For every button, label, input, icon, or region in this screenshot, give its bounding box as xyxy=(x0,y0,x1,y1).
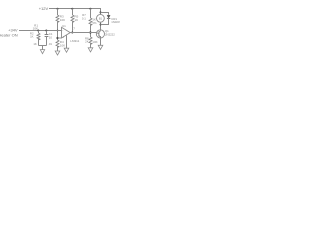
svg-text:10K: 10K xyxy=(33,27,38,31)
wire vertical branch x90 upper xyxy=(90,9,92,19)
node junction dot output xyxy=(71,32,73,34)
svg-text:U1: U1 xyxy=(62,24,66,28)
ground arrow op-amp xyxy=(64,48,69,52)
ground arrow emitter xyxy=(98,45,103,49)
wire vertical branch x72 upper xyxy=(72,9,74,16)
svg-text:1K: 1K xyxy=(33,42,37,46)
ground arrow input filter xyxy=(40,50,44,54)
capacitor C1 wire upper xyxy=(46,31,48,35)
node junction dot signal/divider xyxy=(57,30,59,32)
wire x38 down xyxy=(38,31,40,34)
resistor R5 pullup xyxy=(71,15,74,22)
svg-text:0.1: 0.1 xyxy=(82,17,86,21)
wire input signal horizontal xyxy=(19,30,62,32)
svg-text:+12V: +12V xyxy=(39,6,49,11)
svg-text:1N4007: 1N4007 xyxy=(111,20,120,24)
wire x90 to ground xyxy=(90,43,92,47)
svg-text:1K: 1K xyxy=(30,35,34,39)
wire vertical branch x58 middle xyxy=(57,21,59,40)
node junction dot rail x58 xyxy=(57,8,59,10)
node junction dot rail x90 xyxy=(89,8,91,10)
wire x58 to ground xyxy=(57,46,59,51)
wire x72 down to output node xyxy=(72,21,74,32)
svg-text:Heater ON: Heater ON xyxy=(0,32,18,37)
transistor Q1 collector line xyxy=(99,31,101,33)
svg-text:10K: 10K xyxy=(60,43,65,47)
svg-text:1K: 1K xyxy=(75,18,79,22)
ground arrow base divider xyxy=(88,48,93,52)
resistor R8 lower base xyxy=(89,37,92,44)
wire motor bottom xyxy=(100,22,102,30)
wire x90 to output line xyxy=(90,24,92,37)
capacitor C1 plates xyxy=(45,34,49,36)
wire top +12V rail xyxy=(49,8,101,10)
svg-text:7: 7 xyxy=(73,27,75,31)
svg-text:LM311: LM311 xyxy=(70,39,79,43)
wire vertical branch x58 upper xyxy=(57,9,59,16)
wire rail corner down to motor xyxy=(100,9,102,15)
wire x38 to bottom join xyxy=(38,39,40,46)
svg-text:+: + xyxy=(62,35,64,39)
ground arrow divider xyxy=(55,51,60,55)
svg-text:2N2222: 2N2222 xyxy=(105,32,115,36)
transistor Q1 base wire xyxy=(96,33,99,34)
wire plus input to op-amp xyxy=(58,37,62,39)
wire flyback top xyxy=(101,13,109,15)
svg-text:2K: 2K xyxy=(85,40,89,44)
node junction dot x46 xyxy=(45,30,47,32)
svg-text:10K: 10K xyxy=(60,18,65,22)
motor B1 circle xyxy=(97,14,105,22)
node junction dot base xyxy=(89,31,91,33)
wire emitter to ground xyxy=(100,38,102,45)
node junction dot rail x72 xyxy=(71,8,73,10)
transistor Q1 base bar xyxy=(98,31,100,36)
svg-text:5%: 5% xyxy=(92,21,97,25)
transistor Q1 emitter line xyxy=(99,35,101,37)
svg-text:10K: 10K xyxy=(92,40,97,44)
svg-text:10: 10 xyxy=(49,35,53,39)
op-amp U1 triangle xyxy=(62,27,71,38)
resistor R4 lower divider xyxy=(56,40,59,47)
wire flyback bottom xyxy=(101,18,109,24)
svg-text:B1: B1 xyxy=(99,17,103,21)
diode CR1 cathode bar xyxy=(107,18,110,20)
node junction dot plus input xyxy=(56,37,58,39)
resistor R2 xyxy=(37,33,40,40)
transistor Q1 circle xyxy=(96,30,104,38)
wire op-amp ground stem xyxy=(66,35,68,48)
svg-text:.01: .01 xyxy=(48,42,52,46)
wire join to ground xyxy=(42,46,44,50)
node junction dot motor bottom xyxy=(100,24,102,26)
wire output horizontal xyxy=(70,32,96,34)
capacitor C1 wire lower xyxy=(46,37,48,46)
transistor Q1 emitter arrow xyxy=(100,36,101,37)
resistor R7 upper base xyxy=(89,18,92,25)
resistor R3 upper divider xyxy=(56,15,59,22)
svg-text:-: - xyxy=(62,29,63,33)
wire bottom join horizontal xyxy=(39,45,47,47)
diode CR1 triangle xyxy=(107,15,110,18)
node junction dot motor top xyxy=(100,11,102,13)
node junction dot x38 xyxy=(37,30,39,32)
